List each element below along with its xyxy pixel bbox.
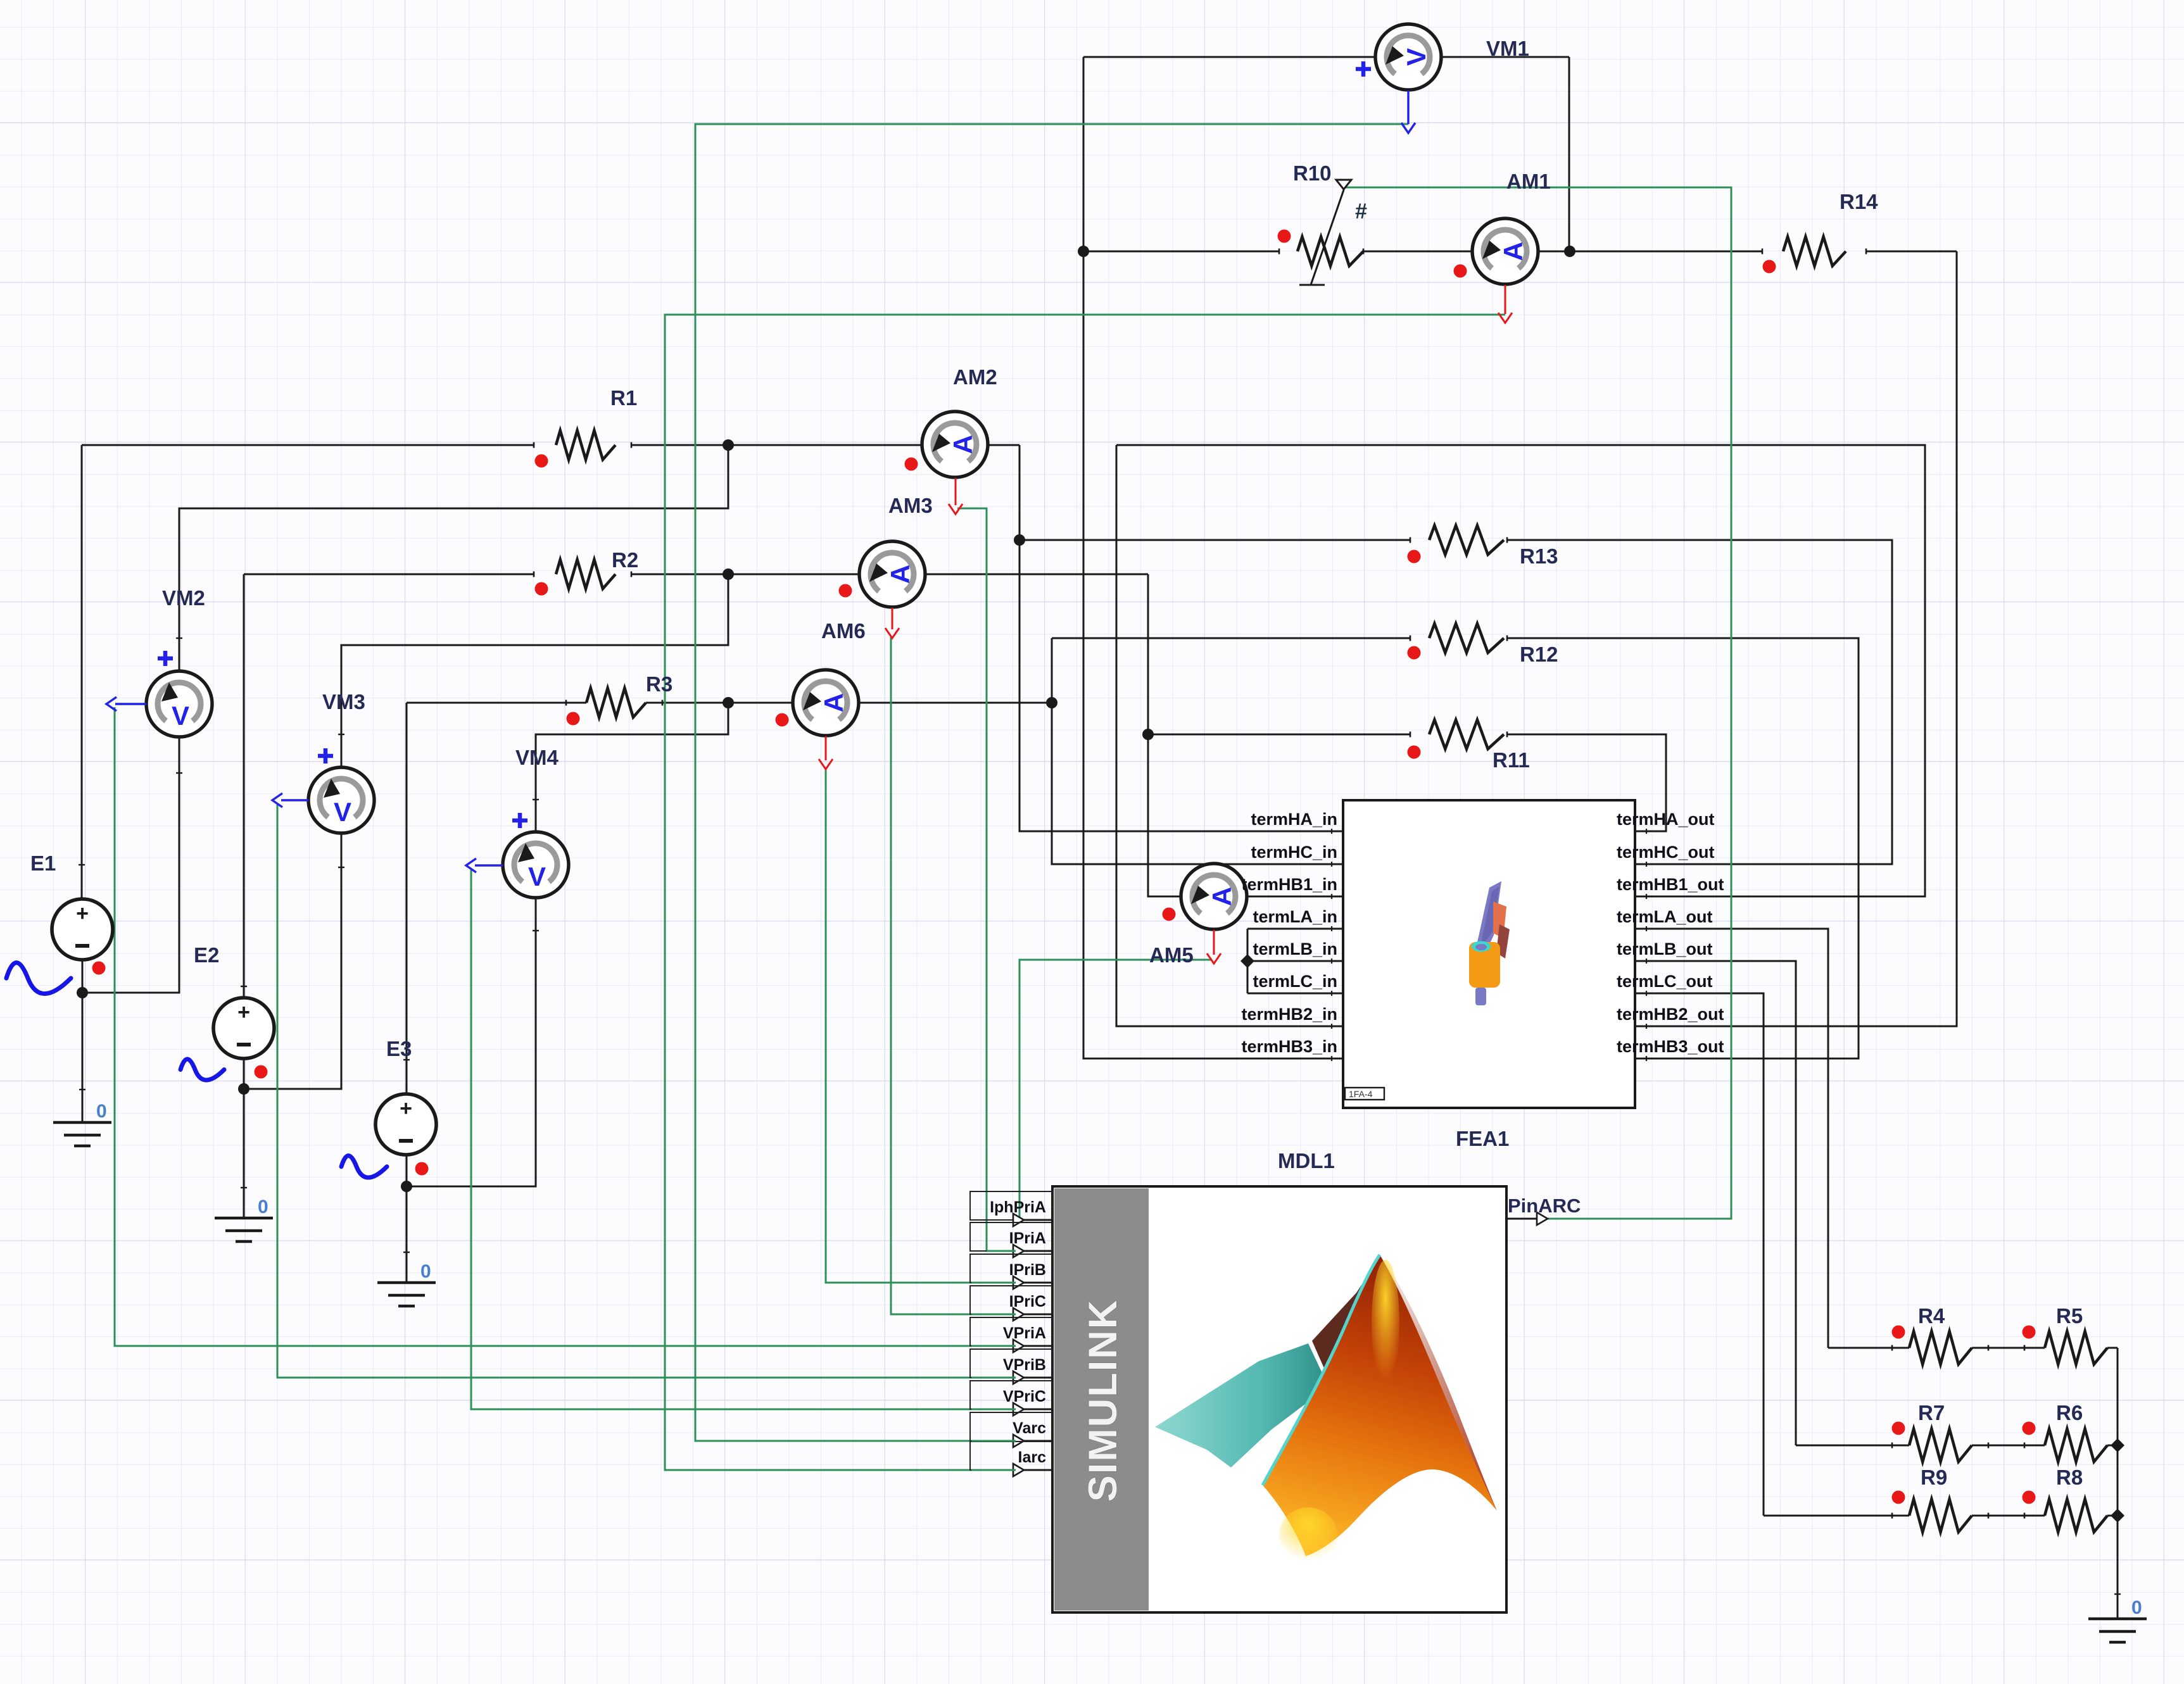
svg-text:R1: R1	[610, 386, 637, 410]
wire E1 to ground	[82, 993, 84, 1122]
source E2 red dot	[255, 1065, 268, 1079]
resistor R4	[1909, 1331, 1972, 1364]
svg-text:IphPriA: IphPriA	[990, 1198, 1046, 1216]
ammeter AM3 red dot	[839, 584, 852, 598]
resistor R8	[2045, 1499, 2107, 1532]
source E3	[376, 1094, 436, 1155]
svg-text:termHB2_out: termHB2_out	[1617, 1005, 1724, 1024]
wire R6 to right bus	[2107, 1445, 2118, 1447]
svg-text:R11: R11	[1493, 748, 1530, 772]
voltmeter VM3 plus	[318, 754, 333, 758]
green wire PinARC to R10 wiper	[1344, 187, 1731, 1219]
svg-text:termHA_in: termHA_in	[1251, 810, 1337, 829]
svg-text:termHC_out: termHC_out	[1617, 843, 1715, 862]
wire termLC_out to R9 row	[1635, 993, 1764, 1516]
svg-text:R7: R7	[1918, 1401, 1945, 1424]
source E2 sine	[180, 1059, 224, 1080]
wire R13 to termHC_out	[1507, 540, 1892, 864]
MDL1 output pin PinARC	[1506, 1218, 1537, 1220]
FEA1 3D coil image	[1469, 881, 1510, 1005]
svg-text:+: +	[76, 902, 89, 926]
wire right bus to ground	[2117, 1348, 2119, 1619]
wire R11 to termHA_out	[1507, 734, 1666, 831]
svg-text:AM3: AM3	[888, 494, 933, 517]
source E3 red dot	[415, 1162, 429, 1176]
wire E1 top feed	[81, 445, 83, 899]
wire E2 bottom segment	[243, 1059, 245, 1218]
wire AM1 out to R14	[1866, 251, 1957, 253]
ammeter AM1 red arrow	[1505, 285, 1506, 314]
svg-text:IPriA: IPriA	[1009, 1229, 1046, 1247]
wire VM4 bottom to E3 node	[407, 896, 536, 1186]
wire E3 bottom segment	[406, 1155, 408, 1283]
wire AM3 node to AM5	[1148, 574, 1181, 896]
svg-text:VM2: VM2	[162, 586, 205, 610]
ammeter AM1 red dot	[1454, 265, 1467, 278]
source E2	[213, 998, 274, 1059]
resistor R12	[1429, 624, 1504, 653]
wire R14 to termHB2_out	[1635, 251, 1957, 1026]
junction R8 bus node	[2111, 1509, 2124, 1523]
resistor R7	[1909, 1429, 1972, 1462]
ammeter AM2	[922, 412, 988, 477]
svg-text:V: V	[528, 862, 546, 891]
green wire AM1 to Iarc	[665, 315, 1505, 1470]
voltmeter VM4 plus	[512, 819, 527, 823]
svg-text:termHB2_in: termHB2_in	[1241, 1005, 1337, 1024]
wire VM3 bottom to E2 node	[244, 833, 341, 1089]
resistor R11	[1429, 720, 1504, 749]
green wire VM2 to VPriA	[115, 707, 1016, 1346]
svg-text:termLA_out: termLA_out	[1617, 907, 1713, 926]
MDL1 membrane logo	[1155, 1255, 1497, 1563]
svg-text:V: V	[172, 701, 189, 731]
ground under E2	[215, 1217, 273, 1219]
voltmeter VM4 arrow	[475, 864, 503, 866]
wire node R13 link	[1019, 539, 1410, 541]
MDL1 input pin IPriA	[970, 1222, 1052, 1251]
voltmeter VM1 arrow	[1407, 91, 1409, 124]
wire AM2 out corner	[988, 444, 1019, 446]
svg-text:PinARC: PinARC	[1508, 1195, 1581, 1217]
svg-text:R13: R13	[1520, 544, 1558, 568]
svg-text:R10: R10	[1293, 161, 1332, 185]
wire AM6 node to termHC_in	[1052, 638, 1343, 864]
svg-text:termLA_in: termLA_in	[1253, 907, 1337, 926]
junction AM2/R13 node	[1014, 534, 1025, 546]
voltmeter VM3 arrow	[281, 799, 308, 801]
svg-text:Iarc: Iarc	[1018, 1448, 1047, 1466]
wire R11 link	[1148, 734, 1410, 736]
ammeter AM3	[859, 541, 925, 607]
wire R9 row	[1764, 1515, 1909, 1517]
source E1 red dot	[92, 962, 106, 975]
source E3 sine	[341, 1155, 387, 1178]
MDL1 input pin VPriB	[970, 1349, 1052, 1378]
svg-text:termHC_in: termHC_in	[1251, 843, 1337, 862]
voltmeter VM2 plus	[158, 657, 173, 661]
wire termHB1_out loop top	[1116, 445, 1925, 896]
ground right bus	[2088, 1618, 2147, 1620]
green wire VM4 to VPriC	[471, 870, 1016, 1409]
wire termLC_in stub	[1247, 993, 1343, 995]
ammeter AM5 red arrow	[1213, 930, 1215, 955]
svg-text:VM3: VM3	[322, 690, 365, 713]
svg-text:termLB_out: termLB_out	[1617, 939, 1713, 958]
svg-text:+: +	[400, 1096, 412, 1121]
MDL1 input pin Iarc	[970, 1442, 1052, 1470]
wire VM1 right drop to AM1 node	[1569, 57, 1570, 251]
voltmeter VM2 arrow	[115, 703, 146, 705]
resistor R9	[1909, 1499, 1972, 1532]
wire R7 row	[1796, 1445, 1909, 1447]
svg-text:R5: R5	[2056, 1304, 2083, 1328]
wire R3 row left	[407, 702, 586, 704]
MDL1 input pin VPriC	[970, 1381, 1052, 1409]
svg-text:IPriB: IPriB	[1009, 1261, 1046, 1279]
svg-text:VPriC: VPriC	[1003, 1388, 1046, 1405]
svg-text:AM2: AM2	[953, 365, 997, 389]
green wire AM2 to IPriA	[957, 508, 1016, 1251]
green wire VM3 to VPriB	[277, 805, 1016, 1378]
svg-text:1FA-4: 1FA-4	[1349, 1089, 1373, 1099]
wire R1 to AM2	[631, 444, 922, 446]
junction R1 node	[723, 439, 734, 451]
svg-text:R14: R14	[1840, 190, 1878, 213]
wire termLB_in stub	[1247, 960, 1343, 962]
wire termL bracket	[1247, 929, 1249, 993]
wire R1 row left	[82, 444, 534, 446]
wire R2 row left	[244, 574, 534, 575]
wire R1 node drop to VM2+	[179, 445, 728, 670]
junction VM1/R10 node	[1078, 246, 1089, 257]
green wire pin entries	[987, 1250, 1016, 1252]
svg-text:R9: R9	[1921, 1466, 1947, 1489]
MDL1 gray sidebar	[1054, 1188, 1149, 1611]
wire E3 top feed	[406, 703, 408, 1094]
svg-text:termHB1_out: termHB1_out	[1617, 875, 1724, 894]
svg-text:IPriC: IPriC	[1009, 1293, 1046, 1310]
voltmeter VM4	[503, 832, 569, 898]
ammeter AM6 red dot	[776, 713, 789, 727]
junction AM1 output node	[1564, 246, 1575, 257]
wire R8 to right bus	[2107, 1515, 2118, 1517]
wire termLA_in stub	[1247, 928, 1343, 930]
wire E1 bottom to VM2	[82, 737, 179, 993]
svg-text:VPriB: VPriB	[1003, 1356, 1046, 1374]
wire termHB2_in drop	[1116, 445, 1343, 1026]
svg-text:A: A	[819, 693, 849, 712]
FEA1 block	[1343, 800, 1635, 1108]
svg-text:E2: E2	[194, 943, 219, 967]
svg-text:termHB3_out: termHB3_out	[1617, 1037, 1724, 1056]
svg-text:E3: E3	[386, 1037, 412, 1060]
resistor R5	[2045, 1331, 2107, 1364]
wire R12 link net	[1052, 638, 1410, 639]
junction termLB bracket	[1240, 954, 1254, 968]
ammeter AM2 red dot	[905, 458, 918, 471]
svg-text:R12: R12	[1520, 643, 1558, 666]
resistor R13	[1429, 525, 1504, 555]
wire R3 to AM6	[646, 702, 793, 704]
svg-text:A: A	[1498, 242, 1528, 261]
svg-text:#: #	[1355, 199, 1367, 223]
svg-text:0: 0	[258, 1197, 268, 1217]
voltmeter VM3	[308, 767, 374, 833]
svg-text:AM6: AM6	[821, 619, 866, 643]
svg-text:VM1: VM1	[1486, 37, 1529, 60]
svg-text:SIMULINK: SIMULINK	[1081, 1299, 1125, 1502]
MDL1 input pin IPriB	[970, 1254, 1052, 1283]
svg-text:V: V	[334, 797, 351, 827]
MDL1 input pin IphPriA	[970, 1191, 1052, 1220]
svg-text:R2: R2	[612, 548, 638, 572]
svg-text:termHA_out: termHA_out	[1617, 810, 1715, 829]
wire R12 to termHB3_out	[1507, 638, 1859, 1059]
wire terminal ticks	[176, 638, 182, 639]
svg-text:0: 0	[96, 1101, 107, 1122]
svg-text:E1: E1	[30, 851, 56, 875]
source E1 sine	[6, 963, 71, 994]
MDL1 block	[1052, 1186, 1506, 1612]
wire R3 node drop to VM4+	[536, 703, 728, 833]
ground under E1	[53, 1121, 111, 1124]
ammeter AM2 red arrow	[955, 478, 957, 505]
green wire AM5 to IphPriA	[1016, 960, 1212, 1220]
wire R2 node drop to VM3+	[341, 574, 728, 767]
wire termLA_out to R4 row	[1635, 929, 1828, 1348]
junction R6 bus node	[2111, 1438, 2124, 1452]
svg-text:AM5: AM5	[1149, 943, 1194, 967]
MDL1 input pin Varc	[970, 1412, 1052, 1441]
svg-text:V: V	[1401, 48, 1431, 66]
junction E2 output node	[238, 1083, 249, 1095]
ammeter AM5 red dot	[1163, 908, 1176, 921]
ammeter AM5	[1181, 864, 1247, 929]
wire R4 row	[1828, 1347, 1909, 1349]
junction AM6/R12 node	[1046, 697, 1057, 708]
junction AM3/R11 node	[1142, 729, 1154, 740]
svg-text:R3: R3	[646, 672, 672, 696]
wire VM1 top row	[1083, 56, 1375, 58]
svg-text:VPriA: VPriA	[1003, 1324, 1046, 1342]
resistor R1	[556, 430, 615, 460]
junction R2 node	[723, 569, 734, 580]
green wire AM3 to IPriC	[891, 637, 1016, 1314]
svg-text:R8: R8	[2056, 1466, 2083, 1489]
variable resistor R10	[1297, 237, 1363, 266]
svg-text:0: 0	[420, 1261, 431, 1282]
wire termLB_out to R7 row	[1635, 961, 1796, 1445]
svg-text:A: A	[885, 565, 915, 584]
wire AM3 out	[925, 574, 1148, 575]
wire net N1 vertical (VM1- to termHB3_in)	[1083, 57, 1343, 1059]
MDL1 input pin VPriA	[970, 1317, 1052, 1346]
wire E2 top feed	[243, 574, 245, 998]
junction E3 output node	[401, 1181, 412, 1192]
wire R10/AM1 row	[1083, 251, 1279, 253]
svg-text:MDL1: MDL1	[1278, 1149, 1335, 1172]
wire R5 to right bus	[2107, 1347, 2118, 1349]
green wire AM6 to IPriB	[826, 767, 1016, 1283]
svg-text:termLC_in: termLC_in	[1253, 972, 1337, 991]
wire AM6 out	[859, 702, 1052, 704]
svg-text:A: A	[1207, 887, 1237, 906]
svg-text:VM4: VM4	[515, 746, 559, 769]
resistor R2	[556, 560, 615, 589]
voltmeter VM1 plus	[1356, 67, 1371, 72]
MDL1 input pin IPriC	[970, 1286, 1052, 1314]
resistor R3	[586, 688, 646, 717]
resistor R14	[1783, 237, 1846, 266]
svg-text:Varc: Varc	[1013, 1419, 1046, 1437]
ammeter AM6 red arrow	[825, 736, 827, 760]
svg-text:R6: R6	[2056, 1401, 2083, 1424]
wire R2 to AM3	[631, 574, 859, 575]
svg-text:termLC_out: termLC_out	[1617, 972, 1713, 991]
svg-text:R4: R4	[1918, 1304, 1945, 1328]
svg-text:+: +	[237, 1000, 250, 1024]
junction E1 output node	[77, 987, 88, 998]
voltmeter VM2	[146, 671, 212, 737]
ground under E3	[377, 1281, 436, 1284]
svg-text:FEA1: FEA1	[1456, 1127, 1509, 1150]
junction R3 node	[723, 697, 734, 708]
ammeter AM3 red arrow	[892, 608, 893, 629]
FEA1 corner chip	[1345, 1088, 1384, 1100]
ammeter AM1	[1472, 218, 1538, 284]
voltmeter VM1	[1375, 24, 1441, 90]
source E1	[52, 899, 113, 960]
ammeter AM6	[793, 670, 859, 736]
wire AM5 out to termHB1_in	[1247, 896, 1343, 898]
svg-text:termHB3_in: termHB3_in	[1241, 1037, 1337, 1056]
green wire VM1 to Varc	[695, 124, 1408, 1441]
resistor R6	[2045, 1429, 2107, 1462]
wire AM2 down to termHA_in	[1019, 445, 1343, 831]
svg-text:AM1: AM1	[1506, 170, 1551, 193]
svg-text:A: A	[948, 435, 978, 454]
svg-text:termHB1_in: termHB1_in	[1241, 875, 1337, 894]
svg-text:0: 0	[2131, 1597, 2142, 1618]
svg-text:termLB_in: termLB_in	[1253, 939, 1337, 958]
